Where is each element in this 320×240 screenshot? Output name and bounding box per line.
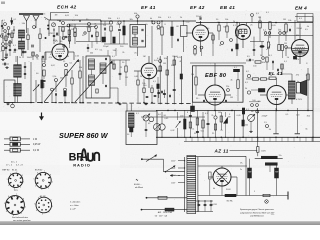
svg-text:50 · 12V · 1A: 50 · 12V · 1A [155, 215, 168, 218]
svg-text:ECH 42: ECH 42 [57, 4, 77, 9]
svg-text:2k: 2k [34, 20, 36, 22]
svg-text:2: 2 [20, 187, 21, 189]
svg-text:2,5k: 2,5k [53, 76, 57, 78]
svg-text:125V: 125V [171, 175, 176, 177]
svg-text:5k: 5k [287, 57, 289, 59]
svg-text:4: 4 [36, 210, 37, 212]
svg-text:1M: 1M [218, 112, 221, 114]
svg-text:50k: 50k [223, 26, 226, 28]
svg-text:1M: 1M [283, 19, 286, 21]
svg-text:5k: 5k [36, 58, 38, 60]
svg-text:2: 2 [21, 213, 22, 215]
svg-text:1k: 1k [219, 45, 221, 47]
svg-text:2k: 2k [122, 52, 124, 54]
svg-text:PP3: PP3 [14, 190, 18, 192]
svg-text:EM 4: EM 4 [295, 5, 307, 10]
svg-text:17 + 2: 17 + 2 [6, 165, 13, 167]
svg-text:5k: 5k [260, 55, 262, 57]
svg-text:1M: 1M [228, 117, 231, 119]
svg-text:47k: 47k [296, 75, 299, 77]
svg-text:220pF: 220pF [172, 56, 178, 58]
svg-text:4k: 4k [94, 24, 96, 26]
svg-text:Sockelansichten: Sockelansichten [12, 216, 29, 219]
svg-text:ECH: ECH [53, 40, 58, 42]
svg-text:ab West: ab West [135, 186, 143, 189]
svg-text:30k: 30k [27, 57, 30, 59]
svg-text:1M: 1M [230, 97, 233, 99]
svg-text:220pF: 220pF [156, 71, 162, 73]
svg-text:1M: 1M [143, 56, 146, 58]
svg-text:110V: 110V [171, 183, 176, 185]
svg-text:0,25 W: 0,25 W [33, 144, 41, 146]
svg-text:400V: 400V [261, 151, 266, 153]
svg-text:50k: 50k [158, 17, 161, 19]
svg-text:1M: 1M [258, 17, 261, 19]
svg-text:0,1: 0,1 [234, 67, 237, 69]
svg-text:220pF: 220pF [196, 16, 202, 18]
svg-text:30k: 30k [130, 19, 133, 21]
svg-text:EBF 80: EBF 80 [2, 170, 10, 172]
svg-text:EM: EM [296, 35, 299, 37]
svg-text:30k: 30k [171, 65, 174, 67]
svg-text:10k: 10k [288, 20, 291, 22]
svg-text:4,7 + 8: 4,7 + 8 [16, 165, 24, 167]
svg-text:AZ 11: AZ 11 [214, 149, 229, 154]
svg-text:2: 2 [48, 188, 49, 190]
svg-text:220pF: 220pF [296, 28, 302, 30]
svg-text:EB 41: EB 41 [220, 5, 235, 10]
svg-text:5: 5 [4, 203, 5, 205]
svg-text:1M: 1M [284, 43, 287, 45]
svg-text:50k: 50k [22, 23, 25, 25]
svg-text:1M: 1M [125, 77, 128, 79]
svg-text:2k: 2k [211, 115, 213, 117]
svg-text:1: 1 [52, 181, 53, 183]
svg-text:5: 5 [34, 179, 35, 181]
svg-text:2x: 2x [240, 169, 242, 171]
svg-text:NSF: NSF [248, 172, 251, 174]
svg-text:EL 41: EL 41 [12, 170, 18, 172]
svg-text:EM 4: EM 4 [12, 196, 18, 198]
svg-text:4k: 4k [150, 18, 152, 20]
svg-text:1k: 1k [270, 75, 272, 77]
svg-text:EF 41: EF 41 [141, 5, 156, 10]
svg-text:220V: 220V [171, 161, 176, 163]
svg-text:240V: 240V [171, 168, 176, 170]
svg-text:4k: 4k [213, 188, 215, 190]
svg-text:1M: 1M [163, 63, 166, 65]
svg-text:10k: 10k [142, 83, 145, 85]
svg-text:2k: 2k [112, 64, 114, 66]
svg-text:2k: 2k [19, 57, 21, 59]
svg-text:AW · 240v·15A: AW · 240v·15A [158, 211, 173, 214]
svg-text:220pF: 220pF [262, 115, 268, 117]
svg-text:5k: 5k [146, 24, 148, 26]
svg-text:4k: 4k [230, 79, 232, 81]
svg-text:4: 4 [8, 185, 9, 187]
svg-text:EBF 80: EBF 80 [205, 73, 227, 79]
svg-text:30k: 30k [258, 101, 261, 103]
svg-text:4: 4 [6, 211, 7, 213]
svg-text:10k: 10k [75, 15, 78, 17]
svg-text:220pF: 220pF [103, 46, 109, 48]
svg-text:EF 42: EF 42 [190, 5, 205, 10]
svg-text:10k: 10k [245, 124, 248, 126]
svg-text:Spannungen gegen Chassis gemes: Spannungen gegen Chassis gemessen [240, 209, 274, 211]
svg-text:1M: 1M [251, 111, 254, 113]
svg-text:300V: 300V [226, 189, 231, 191]
svg-text:47k: 47k [157, 29, 160, 31]
svg-text:4k: 4k [307, 26, 309, 28]
svg-text:50k: 50k [79, 67, 82, 69]
svg-text:1: 1 [25, 206, 26, 208]
svg-text:47k: 47k [49, 57, 52, 59]
svg-text:2k: 2k [233, 21, 235, 23]
svg-text:30k: 30k [307, 116, 310, 118]
svg-text:0,1 W: 0,1 W [33, 150, 40, 152]
svg-text:p = pF: p = pF [70, 209, 77, 211]
svg-text:2k: 2k [140, 76, 142, 78]
svg-text:2k: 2k [180, 17, 182, 19]
svg-text:b 250V: b 250V [296, 99, 303, 101]
svg-text:1: 1 [52, 206, 53, 208]
svg-text:50k: 50k [201, 130, 204, 132]
svg-text:RADIO: RADIO [73, 163, 91, 168]
svg-text:10k: 10k [164, 58, 167, 60]
svg-text:∿: ∿ [136, 178, 139, 182]
svg-text:2: 2 [49, 212, 50, 214]
svg-text:50k: 50k [108, 18, 111, 20]
svg-text:m = Gitter: m = Gitter [70, 204, 79, 207]
svg-text:50k: 50k [42, 61, 45, 63]
svg-text:3: 3 [41, 189, 42, 191]
svg-text:aufgenommen Werte bis 860V vom: aufgenommen Werte bis 860V vom 50V [240, 211, 275, 214]
svg-text:4: 4 [35, 186, 36, 188]
svg-text:1: 1 [23, 181, 24, 183]
svg-text:h = Anoden: h = Anoden [70, 201, 80, 204]
svg-text:AZ 11: AZ 11 [40, 195, 46, 198]
svg-text:SUPER 860 W: SUPER 860 W [59, 131, 109, 140]
svg-text:25k: 25k [278, 30, 281, 32]
svg-text:10k: 10k [71, 29, 74, 31]
svg-text:NSF: NSF [275, 172, 278, 174]
svg-text:47k: 47k [296, 59, 299, 61]
svg-text:4k: 4k [269, 129, 271, 131]
svg-text:5: 5 [7, 179, 8, 181]
svg-text:25k: 25k [226, 86, 229, 88]
svg-text:ECH 42: ECH 42 [35, 170, 43, 172]
svg-text:5: 5 [254, 191, 255, 193]
svg-text:5: 5 [34, 203, 35, 205]
svg-text:4k: 4k [179, 61, 181, 63]
svg-text:30k: 30k [262, 62, 265, 64]
svg-text:5k: 5k [262, 91, 264, 93]
svg-text:5k: 5k [305, 129, 307, 131]
svg-text:4k: 4k [57, 20, 59, 22]
svg-text:M2 HA: M2 HA [227, 200, 234, 203]
svg-text:220pF: 220pF [86, 26, 92, 28]
svg-text:1M: 1M [55, 14, 58, 16]
svg-text:40k: 40k [134, 13, 137, 15]
svg-text:3: 3 [42, 214, 43, 216]
svg-text:40 + 1: 40 + 1 [11, 161, 18, 163]
svg-text:40-60 ~: 40-60 ~ [134, 184, 142, 186]
svg-text:5k: 5k [245, 88, 247, 90]
svg-text:50k: 50k [113, 50, 116, 52]
svg-text:10k: 10k [191, 74, 194, 76]
svg-text:und EM Bereich: und EM Bereich [250, 216, 264, 218]
svg-text:10k: 10k [225, 19, 228, 21]
svg-text:8,2M: 8,2M [213, 204, 218, 206]
